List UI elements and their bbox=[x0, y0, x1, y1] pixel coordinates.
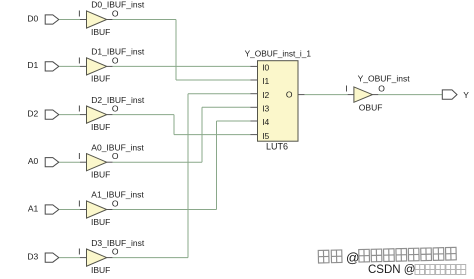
svg-text:I: I bbox=[78, 247, 80, 257]
label LUT6 bbox=[266, 142, 288, 152]
pin label O of D1_IBUF_inst bbox=[112, 55, 119, 65]
pin label I of D1_IBUF_inst bbox=[78, 55, 80, 65]
wire D2 net vertical bbox=[173, 115, 175, 135]
wire A0 net to I3 bbox=[202, 106, 250, 108]
svg-text:O: O bbox=[112, 247, 119, 257]
svg-text:D2: D2 bbox=[27, 108, 38, 118]
svg-text:LUT6: LUT6 bbox=[266, 142, 288, 152]
label IBUF of D0 bbox=[91, 27, 110, 37]
pin O stub of D1_IBUF_inst bbox=[107, 65, 113, 67]
pin label I of D3_IBUF_inst bbox=[78, 247, 80, 257]
svg-text:Y_OBUF_inst_i_1: Y_OBUF_inst_i_1 bbox=[245, 48, 312, 58]
wire O net LUT to OBUF bbox=[305, 94, 348, 96]
pin label O of D3_IBUF_inst bbox=[112, 247, 119, 257]
pin label I of D0_IBUF_inst bbox=[78, 9, 80, 19]
input port A1 bbox=[45, 205, 59, 214]
label IBUF of D3 bbox=[91, 265, 110, 275]
buffer D2_IBUF_inst bbox=[87, 106, 107, 123]
node D3 (port label) bbox=[27, 251, 38, 261]
pin label O of A1_IBUF_inst bbox=[112, 199, 119, 209]
node A0 (port label) bbox=[28, 156, 39, 166]
svg-text:D1: D1 bbox=[27, 60, 38, 70]
watermark line 2 CSDN @孤独的单刀 bbox=[368, 264, 466, 276]
label IBUF of A0 bbox=[91, 170, 110, 180]
label Y_OBUF_inst bbox=[358, 73, 411, 83]
svg-text:I3: I3 bbox=[262, 104, 269, 114]
pin I4 stub of LUT6 bbox=[250, 120, 257, 122]
pin I stub of D2_IBUF_inst bbox=[80, 114, 87, 116]
pin I1 stub of LUT6 bbox=[250, 79, 257, 81]
node A1 (port label) bbox=[28, 203, 39, 213]
node D2 (port label) bbox=[27, 108, 38, 118]
output port Y bbox=[442, 90, 457, 99]
buffer Y_OBUF_inst bbox=[354, 87, 373, 102]
wire D2 net to I5 bbox=[174, 134, 250, 136]
label IBUF of D1 bbox=[91, 74, 110, 84]
pin O stub of A1_IBUF_inst bbox=[107, 209, 113, 211]
svg-text:O: O bbox=[378, 83, 385, 93]
label Y_OBUF_inst_i_1 bbox=[245, 48, 312, 58]
wire A0 net vertical bbox=[201, 107, 203, 162]
label IBUF of D2 bbox=[91, 122, 110, 132]
svg-text:IBUF: IBUF bbox=[91, 122, 110, 132]
buffer D3_IBUF_inst bbox=[87, 249, 107, 266]
wire A1 net horizontal bbox=[113, 209, 217, 211]
buffer A1_IBUF_inst bbox=[87, 201, 107, 218]
pin I0 stub of LUT6 bbox=[250, 65, 257, 67]
svg-text:I: I bbox=[78, 9, 80, 19]
wire D2 port to IBUF bbox=[59, 114, 80, 116]
svg-text:I0: I0 bbox=[262, 63, 269, 73]
label D1_IBUF_inst bbox=[91, 47, 145, 57]
pin O stub of LUT6 bbox=[298, 94, 305, 96]
pin I stub of D0_IBUF_inst bbox=[80, 19, 87, 21]
node D1 (port label) bbox=[27, 60, 38, 70]
pin label O of D0_IBUF_inst bbox=[112, 9, 119, 19]
svg-text:D3: D3 bbox=[27, 251, 38, 261]
pin O stub of D0_IBUF_inst bbox=[107, 19, 113, 21]
wire D0 net vertical bbox=[175, 20, 177, 81]
svg-text:I5: I5 bbox=[262, 131, 269, 141]
svg-text:Y_OBUF_inst: Y_OBUF_inst bbox=[358, 73, 411, 83]
buffer A0_IBUF_inst bbox=[87, 154, 107, 171]
svg-text:I: I bbox=[78, 104, 80, 114]
svg-text:I4: I4 bbox=[262, 117, 269, 127]
svg-text:@: @ bbox=[346, 250, 360, 265]
svg-text:OBUF: OBUF bbox=[359, 103, 383, 113]
pin I stub of D3_IBUF_inst bbox=[80, 257, 87, 259]
pin label I3 bbox=[262, 104, 269, 114]
pin label I0 bbox=[262, 63, 269, 73]
wire D2 net horizontal bbox=[113, 114, 174, 116]
label A1_IBUF_inst bbox=[91, 190, 144, 200]
wire D0 net to I1 bbox=[176, 79, 250, 81]
svg-text:I: I bbox=[78, 151, 80, 161]
wire D1 net to I0 bbox=[113, 65, 251, 67]
pin I stub of A0_IBUF_inst bbox=[80, 161, 87, 163]
svg-text:IBUF: IBUF bbox=[91, 27, 110, 37]
input port D3 bbox=[45, 253, 59, 262]
svg-text:CSDN @: CSDN @ bbox=[368, 264, 415, 276]
pin label I1 bbox=[262, 76, 269, 86]
wire Y net OBUF to port bbox=[378, 94, 442, 96]
svg-text:O: O bbox=[112, 104, 119, 114]
pin O stub of A0_IBUF_inst bbox=[107, 161, 113, 163]
svg-text:O: O bbox=[112, 55, 119, 65]
pin O stub of Y_OBUF_inst bbox=[372, 94, 378, 96]
pin label I5 bbox=[262, 131, 269, 141]
input port D2 bbox=[45, 110, 59, 119]
svg-text:I: I bbox=[78, 55, 80, 65]
input port D0 bbox=[45, 15, 59, 24]
buffer D0_IBUF_inst bbox=[87, 11, 107, 28]
label OBUF bbox=[359, 103, 383, 113]
svg-text:D0: D0 bbox=[27, 13, 38, 23]
label D0_IBUF_inst bbox=[91, 0, 145, 10]
wire A0 net horizontal bbox=[113, 161, 202, 163]
pin label I of A0_IBUF_inst bbox=[78, 151, 80, 161]
svg-text:I2: I2 bbox=[262, 90, 269, 100]
pin I stub of A1_IBUF_inst bbox=[80, 209, 87, 211]
svg-text:I1: I1 bbox=[262, 76, 269, 86]
pin O stub of D3_IBUF_inst bbox=[107, 257, 113, 259]
svg-text:A1: A1 bbox=[28, 203, 39, 213]
wire D3 net to I2 bbox=[188, 93, 250, 95]
svg-text:I: I bbox=[345, 83, 347, 93]
wire A1 port to IBUF bbox=[59, 209, 80, 211]
pin label I of Y_OBUF_inst bbox=[345, 83, 347, 93]
wire A0 port to IBUF bbox=[59, 161, 80, 163]
wire D3 net horizontal bbox=[113, 257, 188, 259]
pin label I of D2_IBUF_inst bbox=[78, 104, 80, 114]
pin label O of A0_IBUF_inst bbox=[112, 151, 119, 161]
watermark line 1 知乎 @宛平南路李医生 bbox=[318, 247, 456, 266]
wire A1 net to I4 bbox=[217, 120, 251, 122]
input port A0 bbox=[45, 158, 59, 167]
pin O stub of D2_IBUF_inst bbox=[107, 114, 113, 116]
pin label I4 bbox=[262, 117, 269, 127]
svg-text:O: O bbox=[112, 151, 119, 161]
node Y (port label) bbox=[463, 90, 469, 100]
pin I5 stub of LUT6 bbox=[250, 134, 257, 136]
svg-text:O: O bbox=[112, 199, 119, 209]
svg-text:A0: A0 bbox=[28, 156, 39, 166]
pin label O of LUT6 bbox=[286, 90, 293, 100]
wire D3 port to IBUF bbox=[59, 257, 80, 259]
wire A1 net vertical bbox=[216, 121, 218, 210]
svg-text:IBUF: IBUF bbox=[91, 217, 110, 227]
pin I2 stub of LUT6 bbox=[250, 93, 257, 95]
svg-text:IBUF: IBUF bbox=[91, 74, 110, 84]
label D2_IBUF_inst bbox=[91, 95, 145, 105]
svg-text:O: O bbox=[112, 9, 119, 19]
svg-text:IBUF: IBUF bbox=[91, 170, 110, 180]
LUT U1 Y_OBUF_inst_i_1 body bbox=[258, 61, 299, 142]
pin label O of D2_IBUF_inst bbox=[112, 104, 119, 114]
pin label I of A1_IBUF_inst bbox=[78, 199, 80, 209]
pin I stub of Y_OBUF_inst bbox=[348, 94, 354, 96]
wire D1 port to IBUF bbox=[59, 65, 80, 67]
wire D0 port to IBUF bbox=[59, 19, 80, 21]
wire D0 net horizontal bbox=[113, 19, 176, 21]
label D3_IBUF_inst bbox=[91, 238, 145, 248]
input port D1 bbox=[45, 62, 59, 71]
wire D3 net vertical bbox=[187, 94, 189, 258]
label IBUF of A1 bbox=[91, 217, 110, 227]
pin label I2 bbox=[262, 90, 269, 100]
svg-text:Y: Y bbox=[463, 90, 469, 100]
buffer D1_IBUF_inst bbox=[87, 58, 107, 75]
svg-text:IBUF: IBUF bbox=[91, 265, 110, 275]
pin I3 stub of LUT6 bbox=[250, 106, 257, 108]
svg-text:I: I bbox=[78, 199, 80, 209]
pin I stub of D1_IBUF_inst bbox=[80, 65, 87, 67]
node D0 (port label) bbox=[27, 13, 38, 23]
svg-text:O: O bbox=[286, 90, 293, 100]
label A0_IBUF_inst bbox=[91, 142, 144, 152]
pin label O of Y_OBUF_inst bbox=[378, 83, 385, 93]
